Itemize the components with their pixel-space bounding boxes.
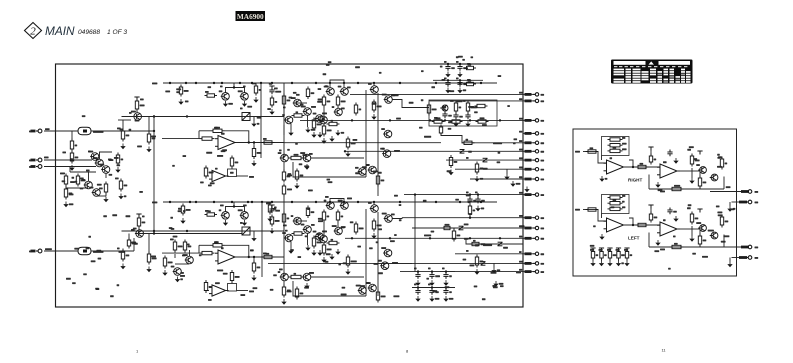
value label — [324, 86, 329, 88]
value label — [132, 243, 137, 245]
resistor R — [254, 84, 257, 96]
value label — [230, 172, 234, 174]
resistor R — [591, 249, 594, 261]
value label — [381, 247, 386, 249]
value label — [688, 204, 692, 206]
junction — [248, 141, 250, 143]
value label — [152, 83, 157, 85]
value label — [468, 80, 472, 82]
value label — [394, 195, 398, 197]
net wire — [466, 238, 523, 244]
junction — [399, 201, 401, 203]
value label — [117, 248, 120, 250]
net wire — [414, 195, 416, 272]
relay K2 — [242, 227, 250, 235]
value label — [463, 83, 467, 85]
resistor R — [427, 103, 430, 116]
wire — [283, 221, 285, 234]
value label — [208, 185, 212, 187]
net wire — [283, 202, 285, 277]
jumper W4 — [481, 262, 486, 266]
value label — [182, 255, 186, 257]
value label — [168, 262, 173, 264]
junction — [445, 286, 447, 288]
junction — [253, 256, 255, 258]
power rail — [269, 86, 274, 90]
resistor R — [181, 204, 184, 216]
value label — [541, 142, 545, 144]
value label — [414, 268, 417, 270]
value label — [696, 164, 700, 166]
net label L_IN — [575, 209, 580, 211]
resistor R — [147, 132, 150, 145]
resistor RA25 — [525, 262, 532, 265]
net wire — [402, 217, 523, 219]
junction — [373, 82, 375, 84]
value label — [110, 295, 114, 297]
value label — [463, 100, 466, 102]
value label — [519, 98, 522, 100]
value label — [93, 157, 98, 159]
wire — [337, 220, 339, 227]
input jack J3 — [36, 165, 42, 169]
value label — [301, 106, 306, 108]
power rail — [616, 248, 621, 252]
value label — [74, 248, 79, 250]
value label — [215, 282, 220, 284]
junction — [632, 166, 634, 168]
wire — [237, 175, 249, 177]
value label — [695, 160, 700, 162]
junction — [253, 141, 255, 143]
value label — [88, 236, 91, 238]
value label — [695, 218, 699, 220]
value label — [443, 107, 447, 109]
value label — [448, 128, 452, 130]
junction — [447, 63, 449, 65]
value label — [199, 254, 202, 256]
value label — [269, 202, 272, 204]
junction — [429, 119, 431, 121]
output wire — [710, 246, 742, 248]
value label — [308, 190, 313, 192]
value label — [516, 272, 521, 274]
transistor Q — [319, 116, 328, 124]
value label — [170, 217, 173, 219]
wire — [431, 272, 433, 275]
value label — [287, 218, 290, 220]
resistor R — [586, 150, 599, 153]
value label — [394, 150, 400, 152]
value label — [331, 120, 334, 122]
wire — [244, 208, 246, 212]
net wire — [91, 250, 134, 252]
wire — [225, 245, 249, 257]
net wire — [470, 178, 523, 180]
output connector A22 — [533, 226, 539, 229]
value label — [221, 150, 226, 152]
value label — [275, 91, 281, 93]
ground — [269, 109, 274, 115]
value label — [590, 249, 594, 251]
transistor QRa — [698, 167, 706, 174]
value label — [287, 189, 292, 191]
resistor R — [292, 232, 305, 235]
wire — [105, 174, 107, 179]
value label — [435, 291, 439, 293]
value label — [178, 246, 183, 248]
value label — [519, 92, 523, 94]
wire — [648, 233, 650, 248]
wire — [330, 199, 344, 202]
ground — [493, 281, 498, 287]
value label — [350, 221, 354, 223]
transistor Q — [95, 159, 104, 167]
wire — [523, 132, 533, 134]
value label — [468, 106, 474, 108]
value label — [119, 251, 125, 253]
net wire — [153, 117, 155, 234]
resistor R — [476, 120, 489, 123]
junction — [414, 193, 416, 195]
wire — [523, 168, 533, 170]
value label — [278, 271, 281, 273]
wire — [650, 151, 652, 157]
value label — [414, 284, 417, 286]
value label — [519, 236, 522, 238]
value label — [357, 246, 361, 248]
value label — [289, 97, 293, 99]
junction — [469, 119, 471, 121]
value label — [205, 210, 209, 212]
svg-text:LEFT: LEFT — [628, 236, 640, 241]
wire — [250, 117, 254, 122]
wire — [469, 195, 471, 199]
ground — [162, 270, 167, 276]
resistor R — [470, 242, 482, 245]
capacitor C — [415, 272, 420, 279]
net wire — [260, 83, 262, 158]
resistor R — [31, 250, 36, 253]
value label — [730, 208, 735, 210]
resistor R — [70, 151, 73, 164]
wire — [648, 175, 650, 190]
value label — [541, 151, 545, 153]
value label — [124, 185, 128, 187]
net wire — [365, 90, 367, 177]
resistor R — [64, 187, 67, 200]
value label — [541, 100, 545, 102]
feedback ladder R — [602, 137, 630, 156]
value label — [313, 113, 317, 115]
value label — [611, 206, 615, 208]
wire — [44, 166, 96, 168]
resistor R — [137, 216, 140, 229]
transistor Q — [185, 256, 194, 264]
value label — [703, 182, 707, 184]
value label — [135, 120, 140, 122]
value label — [622, 143, 627, 145]
wire — [677, 170, 690, 172]
wire — [523, 271, 533, 273]
power rail — [697, 209, 702, 213]
value label — [599, 249, 603, 251]
junction — [251, 82, 253, 84]
wire — [677, 228, 690, 230]
value label — [718, 214, 723, 216]
value label — [75, 145, 78, 147]
value label — [353, 139, 358, 141]
output connector A23 — [533, 237, 539, 240]
ground — [457, 72, 462, 78]
transistor Q — [315, 233, 324, 241]
transistor Q — [384, 215, 393, 223]
value label — [96, 288, 100, 290]
transistor Q — [221, 93, 230, 101]
resistor R — [649, 154, 652, 165]
resistor R — [211, 244, 225, 247]
value label — [590, 245, 595, 247]
output connector A21 — [533, 216, 539, 219]
value label — [60, 173, 65, 175]
wire — [97, 195, 107, 197]
value label — [312, 119, 317, 121]
value label — [295, 143, 298, 145]
value label — [613, 147, 617, 149]
wire — [431, 288, 433, 291]
transistor Q — [90, 153, 99, 161]
value label — [304, 287, 309, 289]
value label — [593, 225, 596, 227]
value label — [607, 249, 611, 251]
resistor R — [306, 87, 309, 100]
resistor RR1 — [608, 144, 623, 147]
value label — [287, 290, 291, 292]
resistor R — [119, 179, 122, 192]
value label — [249, 291, 254, 293]
capacitor C — [269, 207, 274, 214]
resistor RA16 — [525, 159, 532, 162]
value label — [368, 83, 372, 85]
ground — [311, 250, 316, 256]
junction — [231, 201, 233, 203]
wire — [445, 288, 447, 291]
value label — [187, 244, 190, 246]
resistor R — [262, 255, 275, 258]
value label — [332, 106, 335, 108]
power rail — [607, 248, 612, 252]
value label — [658, 189, 663, 191]
net wire — [455, 168, 523, 170]
resistor RA13 — [525, 132, 532, 135]
value label — [541, 228, 545, 230]
net label R_IN — [575, 151, 580, 153]
op-amp U4 — [209, 285, 229, 296]
value label — [263, 138, 267, 140]
value label — [513, 142, 516, 144]
value label — [456, 78, 459, 80]
value label — [208, 210, 211, 212]
wire — [233, 202, 235, 207]
resistor R — [354, 222, 357, 235]
ground — [453, 121, 458, 127]
value label — [287, 175, 292, 177]
value label — [613, 254, 617, 256]
value label — [673, 211, 677, 213]
net wire — [446, 159, 523, 161]
value label — [300, 104, 304, 106]
ground — [242, 101, 247, 107]
wire — [523, 119, 533, 121]
resistor R — [322, 124, 325, 137]
value label — [717, 154, 720, 156]
resistor RA20 — [525, 193, 532, 196]
value label — [423, 200, 427, 202]
resistor RA10 — [525, 93, 532, 96]
wire — [71, 131, 73, 141]
value label — [296, 111, 299, 113]
value label — [448, 115, 452, 117]
value label — [183, 210, 186, 212]
wire — [199, 244, 211, 246]
value label — [208, 86, 212, 88]
value label — [687, 149, 691, 151]
junction — [221, 82, 223, 84]
junction — [444, 119, 446, 121]
value label — [519, 215, 523, 217]
wire — [225, 131, 249, 143]
value label — [238, 209, 243, 211]
value label — [673, 236, 676, 238]
value label — [328, 61, 332, 63]
value label — [444, 61, 447, 63]
value label — [447, 170, 452, 172]
capacitor C — [467, 197, 472, 204]
value label — [250, 249, 254, 251]
value label — [300, 152, 305, 154]
value label — [273, 274, 277, 276]
value label — [541, 194, 545, 196]
value label — [376, 241, 379, 243]
op-amp UR2 — [657, 164, 680, 178]
value label — [142, 222, 146, 224]
resistor R — [135, 99, 138, 112]
value label — [223, 273, 228, 275]
wire — [122, 120, 124, 131]
value label — [45, 248, 52, 250]
value label — [93, 131, 104, 133]
transistor Q — [84, 181, 93, 189]
wire — [523, 253, 533, 255]
filter FL2 — [78, 247, 91, 254]
value label — [311, 106, 316, 108]
net wire — [91, 130, 154, 132]
value label — [45, 128, 50, 130]
value label — [301, 224, 305, 226]
net wire — [376, 262, 412, 264]
output jack L2 — [746, 256, 752, 260]
capacitor C — [475, 197, 480, 204]
wire — [417, 288, 419, 291]
value label — [253, 287, 258, 289]
value label — [463, 67, 468, 69]
ground — [178, 99, 183, 105]
op-amp UL1 — [604, 218, 627, 232]
net wire — [429, 100, 523, 102]
ground — [251, 236, 256, 242]
value label — [126, 255, 130, 257]
value label — [183, 254, 188, 256]
wire — [598, 210, 606, 222]
wire — [601, 156, 603, 161]
value label — [355, 172, 360, 174]
resistor RA18 — [525, 178, 532, 181]
value label — [72, 177, 75, 179]
value label — [165, 91, 170, 93]
value label — [184, 90, 189, 92]
ground — [475, 206, 480, 212]
resistor R — [282, 285, 285, 298]
ground — [474, 176, 479, 182]
resistor R — [31, 159, 36, 162]
transistor QRb — [710, 174, 718, 181]
value label — [142, 216, 145, 218]
value label — [356, 285, 361, 287]
transistor Q — [340, 88, 349, 96]
resistor R — [322, 243, 325, 256]
value label — [723, 235, 729, 237]
capacitor C — [445, 80, 450, 87]
value label — [473, 200, 476, 202]
value label — [109, 174, 113, 176]
wire — [283, 125, 285, 135]
value label — [81, 180, 86, 182]
resistor R — [282, 212, 285, 225]
value label — [214, 127, 218, 129]
wire — [447, 64, 449, 66]
value label — [214, 241, 218, 243]
value label — [368, 202, 372, 204]
feedback network box — [429, 100, 497, 126]
value label — [654, 217, 658, 219]
wire — [343, 83, 345, 88]
value label — [366, 164, 370, 166]
value label — [428, 268, 431, 270]
value label — [208, 299, 212, 301]
value label — [114, 157, 119, 159]
wire — [237, 290, 249, 292]
value label — [467, 79, 471, 81]
value label — [480, 117, 485, 119]
junction — [153, 232, 155, 234]
value label — [206, 152, 212, 154]
value label — [474, 286, 478, 288]
value label — [266, 253, 270, 255]
main board outline — [56, 64, 524, 307]
resistor RA21 — [525, 216, 532, 219]
transistor Q — [319, 235, 328, 243]
transistor Q — [340, 202, 349, 210]
value label — [117, 164, 121, 166]
value label — [468, 64, 472, 66]
value label — [366, 282, 371, 284]
value label — [343, 262, 347, 264]
wire — [69, 167, 71, 173]
ground — [445, 72, 450, 78]
op-amp U3 — [215, 250, 238, 264]
resistor R — [204, 280, 207, 293]
wire — [417, 272, 419, 275]
